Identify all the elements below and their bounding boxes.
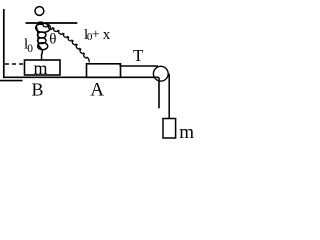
block A <box>87 64 121 78</box>
wall (left vertical line) <box>3 9 5 77</box>
svg-text:m: m <box>179 122 194 143</box>
spring attachment blob <box>39 22 44 26</box>
ring O at top <box>35 7 44 16</box>
svg-text:m: m <box>34 58 48 78</box>
hanging mass block <box>163 119 176 139</box>
svg-text:A: A <box>90 80 104 101</box>
string from A to pulley <box>120 65 158 67</box>
diagonal spring (stretched l0+x) <box>43 24 89 62</box>
table top line <box>3 76 159 78</box>
hanging string <box>168 74 170 119</box>
svg-text:B: B <box>32 80 44 100</box>
svg-text:+: + <box>92 28 100 43</box>
ceiling line <box>26 22 78 24</box>
svg-text:x: x <box>103 27 111 43</box>
bottom-left ground segment <box>0 80 23 82</box>
string attach riser on A <box>119 64 121 67</box>
pulley <box>153 66 168 81</box>
table right edge <box>158 78 160 109</box>
dashed string from wall to block B <box>5 63 25 65</box>
svg-text:0: 0 <box>27 43 33 55</box>
svg-text:T: T <box>133 46 144 65</box>
vertical spring (natural length l0) <box>36 23 51 60</box>
svg-text:θ: θ <box>49 31 56 47</box>
block B <box>25 60 61 75</box>
